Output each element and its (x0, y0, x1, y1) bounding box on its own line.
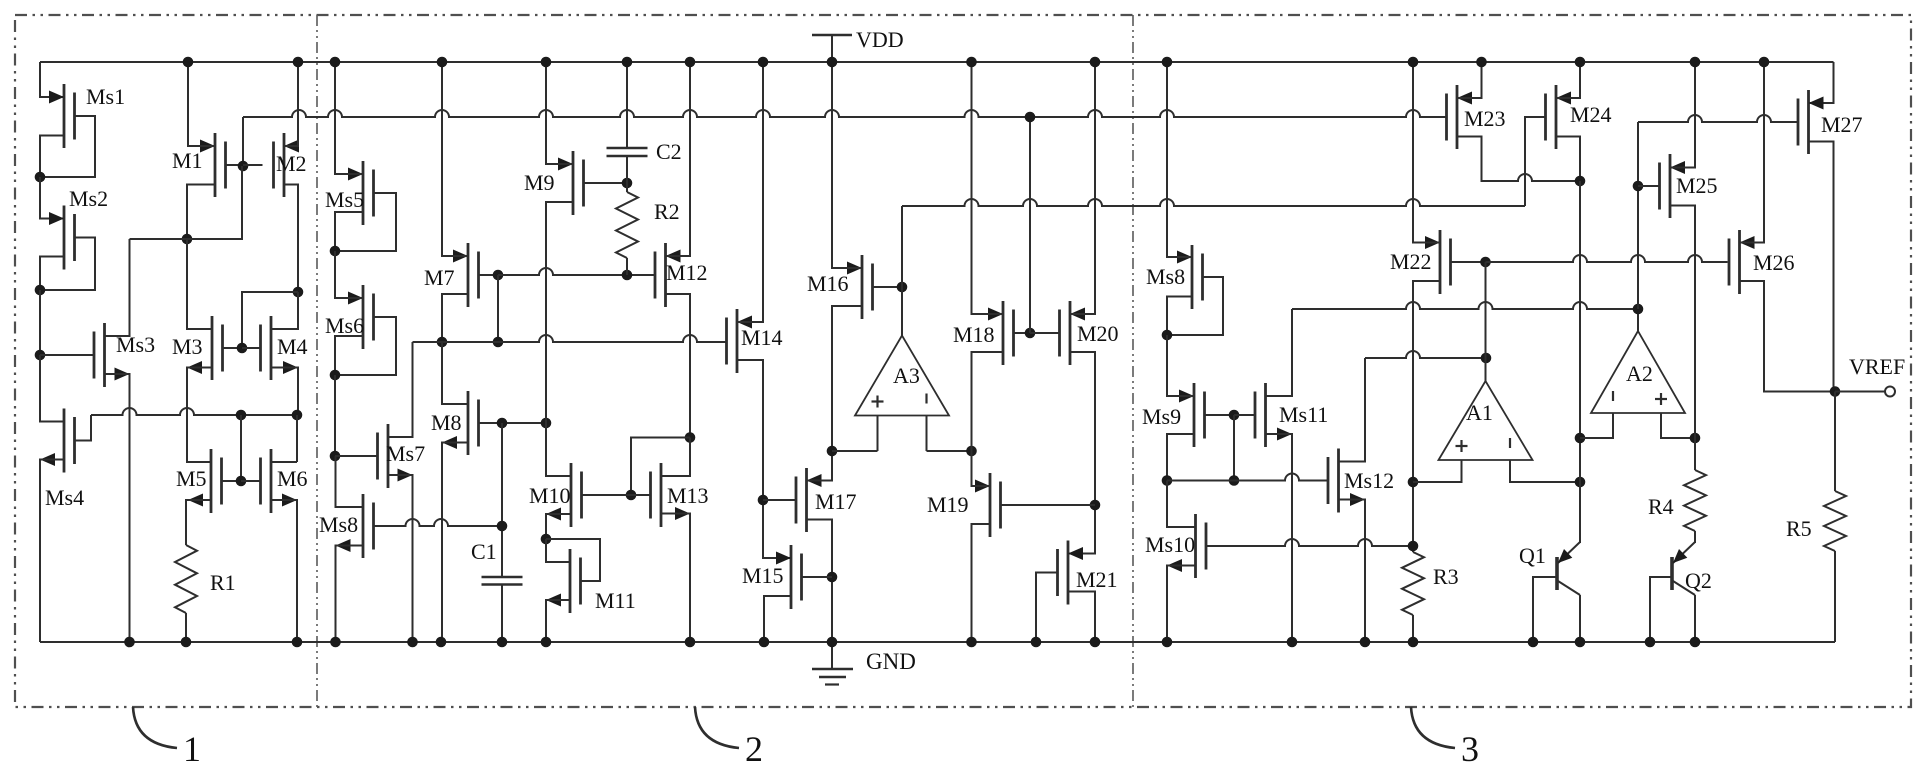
transistor Ms10 (1145, 514, 1206, 578)
wire Ms5 gate loop (335, 193, 396, 251)
wire A2 output up (1637, 309, 1639, 331)
junction Q2 collector GND (1690, 637, 1701, 648)
svg-text:R3: R3 (1433, 564, 1459, 589)
junction startup node (Ms9 drain) (1162, 475, 1173, 486)
svg-text:C1: C1 (471, 539, 497, 564)
wire M8 source down to GND (442, 443, 468, 643)
junction M16 gate / A3 output node (897, 282, 908, 293)
resistor R5 (1786, 491, 1846, 551)
op-amp A3 (855, 336, 949, 416)
junction M15 gate node (827, 572, 838, 583)
svg-text:M14: M14 (741, 325, 783, 350)
transistor Ms5 (325, 161, 374, 225)
wire Ms6 node down to Ms7 gate node (334, 375, 336, 456)
svg-text:M24: M24 (1570, 102, 1612, 127)
resistor R1 (175, 545, 236, 613)
svg-text:M21: M21 (1076, 567, 1118, 592)
junction M18/M20 gate node (1025, 328, 1036, 339)
svg-text:M19: M19 (927, 492, 969, 517)
wire C1 bottom to GND (501, 585, 503, 643)
svg-text:M15: M15 (742, 563, 784, 588)
wire M26 source from VDD (1740, 62, 1765, 243)
junction A3 - input node (966, 446, 977, 457)
junction Ms1 drain-gate node (35, 172, 46, 183)
resistor R4 (1648, 470, 1706, 531)
transistor Ms11 (1255, 383, 1328, 447)
wire M3 source down to M5 drain (187, 368, 212, 463)
svg-text:Ms12: Ms12 (1344, 468, 1394, 493)
wire R4 bottom to Q2 (1694, 531, 1696, 543)
wire M13 node to gate column (631, 438, 690, 496)
wire M14 drain down to M17 gate node (737, 360, 791, 558)
wire C2 bottom to node (626, 156, 628, 183)
bjt Q1 (1519, 542, 1580, 595)
wire mirror node down to Q1 (1579, 181, 1581, 543)
section label 1 (133, 707, 201, 769)
wire A2 - input lead (1580, 413, 1613, 438)
junction M12/M13 drain node (685, 432, 696, 443)
junction Q1 collector GND (1575, 637, 1586, 648)
transistor M4 (261, 316, 308, 380)
wire Ms11 source down to GND (1266, 434, 1293, 642)
wire Ms7 gate lead (335, 455, 378, 457)
wire M25 gate lead (1638, 185, 1660, 187)
transistor M7 (424, 243, 479, 307)
wire Ms12 source down to GND (1339, 500, 1366, 643)
transistor Ms8 (section 3) (1146, 245, 1203, 309)
transistor M9 (524, 151, 584, 215)
wire M23 drain to shared node (1457, 137, 1580, 182)
wire M18 gate lead (1014, 332, 1031, 334)
svg-text:M20: M20 (1077, 321, 1119, 346)
wire C2 feed from VDD (626, 62, 628, 148)
section divider 2|3 (1132, 15, 1134, 707)
wire Ms2 node down to Ms3 gate node (39, 290, 41, 355)
transistor M10 (529, 463, 582, 527)
wire R5 bottom to GND (1834, 551, 1836, 642)
wire gate node column (1233, 415, 1235, 481)
wire M8 gate line (479, 422, 547, 424)
junction A2 - node (1575, 433, 1586, 444)
junction Ms8b drain-gate node (1162, 330, 1173, 341)
junction M1/M2 gate node (238, 161, 249, 172)
wire A1 output line (1365, 351, 1486, 358)
wire M1 gate lead (226, 164, 244, 166)
junction C2 VDD (622, 57, 633, 68)
wire M25 source from VDD (1670, 62, 1695, 168)
svg-text:M9: M9 (524, 170, 555, 195)
wire Ms7 drain up to M7 diode line (388, 342, 413, 437)
wire M19 bottom lead to GND (972, 524, 991, 642)
svg-text:Ms10: Ms10 (1145, 532, 1195, 557)
svg-text:2: 2 (745, 729, 763, 769)
svg-text:Ms2: Ms2 (69, 186, 108, 211)
transistor Ms3 (94, 323, 155, 387)
transistor M8 (431, 391, 479, 455)
wire A2 output to M25 gate / M27 line (1637, 122, 1639, 309)
wire VREF node down to R5 (1834, 392, 1836, 492)
junction M11 source GND (541, 637, 552, 648)
junction R2 bottom node (622, 270, 633, 281)
wire Ms8 gate line to C1 node (374, 519, 503, 526)
junction M22 source VDD (1408, 57, 1419, 68)
wire M7 gate line to M12 gate (498, 268, 655, 275)
svg-text:M6: M6 (277, 466, 308, 491)
junction M19 GND (966, 637, 977, 648)
wire M20 drain down to M21 (1068, 352, 1095, 554)
svg-text:3: 3 (1461, 729, 1479, 769)
wire rail2 drop to M1/M2 gate node (242, 117, 244, 166)
transistor M11 (546, 549, 636, 613)
wire Ms11 gate lead (1234, 414, 1255, 416)
wire VREF terminal lead (1835, 391, 1885, 393)
junction M1 source VDD (183, 57, 194, 68)
wire M24 gate link (1525, 117, 1545, 206)
junction A3 + input node (827, 446, 838, 457)
transistor M1 (172, 133, 226, 197)
junction VREF node (1830, 386, 1841, 397)
junction Q2 base GND (1645, 637, 1656, 648)
junction R3 GND (1408, 637, 1419, 648)
wire M26 drain to VREF node (1740, 281, 1836, 392)
transistor Ms1 (49, 84, 125, 148)
wire Ms6 drain to node (335, 336, 363, 375)
wire A1 - input lead (1510, 460, 1580, 482)
svg-text:A2: A2 (1626, 361, 1653, 386)
wire M17 top lead to A3+ node (807, 451, 833, 481)
junction A1 - node (1575, 477, 1586, 488)
resistor R2 (616, 192, 680, 258)
svg-text:Q2: Q2 (1685, 568, 1712, 593)
section divider 1|2 (316, 15, 318, 707)
junction Q1 base GND (1528, 637, 1539, 648)
junction M20 source VDD (1090, 57, 1101, 68)
transistor M15 (742, 545, 802, 609)
wire M20 gate lead (1030, 332, 1060, 334)
svg-text:M11: M11 (595, 588, 636, 613)
junction Ms8b source VDD (1162, 57, 1173, 68)
junction M17 gate node (758, 495, 769, 506)
wire M9 gate lead (584, 182, 628, 184)
svg-text:R1: R1 (210, 570, 236, 595)
junction M14 source VDD (758, 57, 769, 68)
transistor M24 (1546, 85, 1612, 149)
svg-text:Q1: Q1 (1519, 543, 1546, 568)
wire Ms12 drain up to A1 output line (1339, 358, 1366, 462)
svg-text:Ms4: Ms4 (45, 485, 84, 510)
VREF terminal (1849, 354, 1905, 397)
wire M6 drain up (271, 415, 297, 462)
op-amp A1 (1439, 381, 1533, 460)
wire M7 gate lead (479, 274, 499, 276)
wire C1 feed (501, 423, 503, 577)
wire Ms10 source down to GND (1167, 566, 1196, 643)
wire A2 output line (1292, 302, 1638, 309)
junction M2 source VDD (293, 57, 304, 68)
wire Q2 base to GND (1650, 577, 1672, 642)
wire M27 drain down to VREF node (1809, 142, 1834, 392)
wire gate node down (240, 415, 242, 481)
wire Ms10 gate line to R3 top (1206, 539, 1413, 546)
transistor M25 (1660, 154, 1718, 218)
wire Ms8 drain up to Ms7 gate node (336, 456, 364, 507)
wire Ms9 gate lead (1205, 414, 1235, 416)
svg-text:1: 1 (183, 729, 201, 769)
junction Ms3 gate node (35, 350, 46, 361)
junction M6 drain node (292, 410, 303, 421)
junction M13 source GND (685, 637, 696, 648)
junction M9 source VDD (541, 57, 552, 68)
section label 3 (1411, 707, 1479, 769)
wire M11 gate loop (546, 539, 600, 581)
svg-text:Ms5: Ms5 (325, 187, 364, 212)
transistor M16 (807, 255, 873, 319)
wire M12 source from VDD (666, 62, 691, 256)
transistor M19 (927, 473, 1001, 537)
svg-text:M3: M3 (172, 334, 203, 359)
svg-text:GND: GND (866, 649, 916, 674)
junction node A (M1 drain/M3 drain) (182, 234, 193, 245)
wire Ms4 gate to bias line (75, 415, 92, 441)
junction Ms7 source GND (407, 637, 418, 648)
ground symbol (812, 642, 916, 685)
wire R3 bottom to GND (1412, 615, 1414, 642)
wire node A left to Ms3 drain (130, 238, 188, 240)
wire Ms3 source down to GND (105, 374, 130, 642)
wire M9 source from VDD (546, 62, 573, 164)
wire Ms8 source down to GND (336, 546, 364, 643)
junction C2/R2/M9 gate node (622, 178, 633, 189)
wire M7 source from VDD (442, 62, 468, 256)
wire Ms7 source down to GND (388, 475, 413, 642)
wire M18 source from VDD (972, 62, 1004, 314)
wire M15 gate lead (802, 576, 833, 578)
junction gate bias on rail2 (1025, 112, 1036, 123)
wire Ms11 drain up to A2 output line (1266, 309, 1293, 396)
junction M3/M4 gate node (237, 343, 248, 354)
wire A3 output column (901, 206, 903, 336)
wire Ms5 node to Ms6 source (335, 251, 363, 298)
junction M8 gate / M9 drain node (541, 418, 552, 429)
junction M18 source VDD (966, 57, 977, 68)
wire M20 source from VDD (1070, 62, 1095, 314)
wire startup node line to Ms12 gate (1167, 474, 1327, 481)
wire M7 gate-drain diode link (497, 275, 499, 342)
junction Ms2 drain-gate node (35, 285, 46, 296)
junction Ms9/Ms11 gate node (1229, 410, 1240, 421)
junction node B (M2 drain/M4 drain) (293, 287, 304, 298)
junction M21 gate GND (1031, 637, 1042, 648)
transistor Ms2 (49, 186, 108, 270)
transistor M18 (953, 301, 1014, 365)
wire Ms8b gate loop (1167, 277, 1223, 335)
transistor Ms9 (1142, 383, 1205, 447)
wire A3 + input lead (877, 416, 879, 452)
junction C1 top on Ms8 gate line (497, 521, 508, 532)
transistor Ms12 (1328, 449, 1394, 513)
wire M24 drain to node (1556, 137, 1580, 182)
wire VDD rail right drop to M27 source (1809, 62, 1834, 103)
wire R1 bottom to GND (185, 613, 187, 642)
junction Ms5 drain-gate node (330, 246, 341, 257)
capacitor C1 (471, 539, 523, 585)
junction M8 source GND (436, 637, 447, 648)
junction Ms12 source GND (1360, 637, 1371, 648)
junction Ms5 source VDD (330, 57, 341, 68)
junction A1 + node (1408, 477, 1419, 488)
svg-text:M5: M5 (176, 466, 207, 491)
wire Ms2 drain to node (40, 257, 64, 291)
transistor M5 (176, 449, 222, 513)
wire M2 source from VDD (284, 62, 298, 146)
transistor Ms4 (40, 409, 84, 511)
junction M15 GND (759, 637, 770, 648)
wire M3 gate lead (223, 347, 243, 349)
svg-text:Ms9: Ms9 (1142, 404, 1181, 429)
transistor M23 (1447, 85, 1506, 149)
transistor M13 (651, 463, 709, 527)
transistor M26 (1729, 230, 1795, 294)
wire M11 source down to GND (546, 600, 570, 642)
junction M7 drain node (437, 337, 448, 348)
svg-text:A1: A1 (1466, 400, 1493, 425)
wire Ms2 gate loop (40, 238, 95, 291)
wire M5 gate lead (222, 480, 242, 482)
transistor M12 (655, 243, 708, 307)
wire Ms1 drain to node (40, 136, 64, 178)
junction M26 source VDD (1759, 57, 1770, 68)
junction M8 gate / C1 node (497, 418, 508, 429)
svg-text:M22: M22 (1390, 249, 1432, 274)
svg-text:C2: C2 (656, 139, 682, 164)
svg-text:M1: M1 (172, 148, 203, 173)
wire VDD rail (40, 61, 1834, 63)
wire M10 source down to M11 (546, 514, 571, 539)
wire M1 drain down to node A (187, 185, 215, 240)
junction A2 output node (1633, 304, 1644, 315)
junction M7 diode node on drain line (493, 337, 504, 348)
wire A1 + input lead (1413, 460, 1462, 482)
wire M23 source from VDD (1457, 62, 1482, 98)
svg-text:M27: M27 (1821, 112, 1863, 137)
wire M18/M20 gate bias drop (1029, 117, 1031, 333)
wire M1 source from VDD (188, 62, 215, 146)
wire M16 drain down to A3+ node (832, 306, 862, 451)
svg-text:R4: R4 (1648, 494, 1674, 519)
wire M2 drain down to node B (284, 185, 298, 293)
op-amp A2 (1591, 331, 1685, 413)
junction M23/M24 drain node (1575, 176, 1586, 187)
wire M18 drain down to A3- node (972, 352, 1004, 451)
svg-text:Ms6: Ms6 (325, 313, 364, 338)
wire M5 source to R1 (186, 500, 211, 545)
junction M21 GND (1090, 637, 1101, 648)
VDD symbol (812, 27, 904, 62)
svg-text:R2: R2 (654, 199, 680, 224)
wire VDD rail left drop to Ms1 source (40, 62, 64, 97)
junction Ms11 source GND (1287, 637, 1298, 648)
wire M22 drain down to R3 (1413, 281, 1440, 552)
wire Ms8b node to Ms9 source (1167, 335, 1194, 396)
wire M4 drain up to node B (271, 292, 298, 329)
wire M19 top lead from A3- node (972, 451, 991, 486)
svg-text:Ms1: Ms1 (86, 84, 125, 109)
wire Ms3 drain up to mirror node (105, 239, 130, 336)
wire M25/M27 gate line (1638, 115, 1798, 122)
wire M6 source to GND (271, 500, 297, 642)
svg-text:M25: M25 (1676, 173, 1718, 198)
junction M7 source VDD (437, 57, 448, 68)
svg-text:VREF: VREF (1849, 354, 1905, 379)
wire M11 drain from node (546, 539, 570, 562)
svg-text:M16: M16 (807, 271, 849, 296)
junction Ms6 drain-gate node (330, 370, 341, 381)
wire M22 gate lead (1451, 261, 1486, 263)
wire R2 leads (626, 183, 628, 275)
wire Q1 base to GND (1533, 577, 1557, 642)
wire Ms1 gate loop (40, 116, 95, 177)
svg-text:M8: M8 (431, 410, 462, 435)
wire gate-bias rail (M1/M2 gates to M23 gate) (243, 110, 1446, 117)
wire node B to M3/M4 gates (242, 292, 298, 348)
wire M17 gate lead (763, 499, 795, 501)
svg-text:Ms8: Ms8 (1146, 264, 1185, 289)
junction R3 top node (1408, 541, 1419, 552)
transistor Ms7 (378, 424, 426, 488)
wire GND rail (40, 641, 1835, 643)
wire M10 drain up to M9 drain line (546, 423, 571, 476)
wire M13 drain up to node (661, 438, 690, 477)
junction M5/M6 gate bias node (236, 410, 247, 421)
wire M7 diode line to M14 gate (413, 335, 727, 342)
wire M25 drain down to A2+ node (1670, 206, 1695, 439)
transistor Ms6 (325, 285, 374, 349)
junction Ms8 source GND (330, 637, 341, 648)
svg-text:VDD: VDD (856, 27, 904, 52)
wire M16 source from VDD (832, 62, 862, 268)
junction startup node mid (1229, 475, 1240, 486)
wire M22/M26 gate line (1486, 255, 1728, 262)
svg-text:M4: M4 (277, 334, 308, 359)
wire Ms4 drain up to Ms3 gate node (40, 355, 64, 422)
transistor M20 (1060, 301, 1119, 365)
capacitor C2 (607, 139, 682, 164)
wire M21 bottom lead to GND (1068, 592, 1095, 643)
wire M16 gate lead (873, 286, 903, 288)
transistor M21 (1058, 541, 1118, 605)
wire M10/M13 gate line (582, 494, 651, 496)
svg-text:Ms8: Ms8 (319, 512, 358, 537)
junction M12 source VDD (685, 57, 696, 68)
wire Ms9 drain down to node (1167, 434, 1194, 481)
wire M22 source from VDD (1413, 62, 1440, 243)
svg-text:M23: M23 (1464, 106, 1506, 131)
wire M3 drain up to node A (187, 239, 212, 329)
svg-text:M17: M17 (815, 489, 857, 514)
junction C1 GND (497, 637, 508, 648)
wire Ms6 gate loop (335, 317, 396, 375)
transistor M17 (796, 468, 857, 532)
wire M9 drain down to M10 drain (546, 202, 573, 423)
wire A3 output rail (to M24 gate) (902, 199, 1525, 206)
svg-text:M18: M18 (953, 322, 995, 347)
wire M15 bottom lead to GND (764, 596, 791, 642)
junction M24 source VDD (1575, 57, 1586, 68)
wire M6 gate lead (241, 480, 261, 482)
section label 2 (695, 707, 763, 769)
wire M12 drain down to M13 node (666, 294, 691, 438)
svg-text:M10: M10 (529, 483, 571, 508)
